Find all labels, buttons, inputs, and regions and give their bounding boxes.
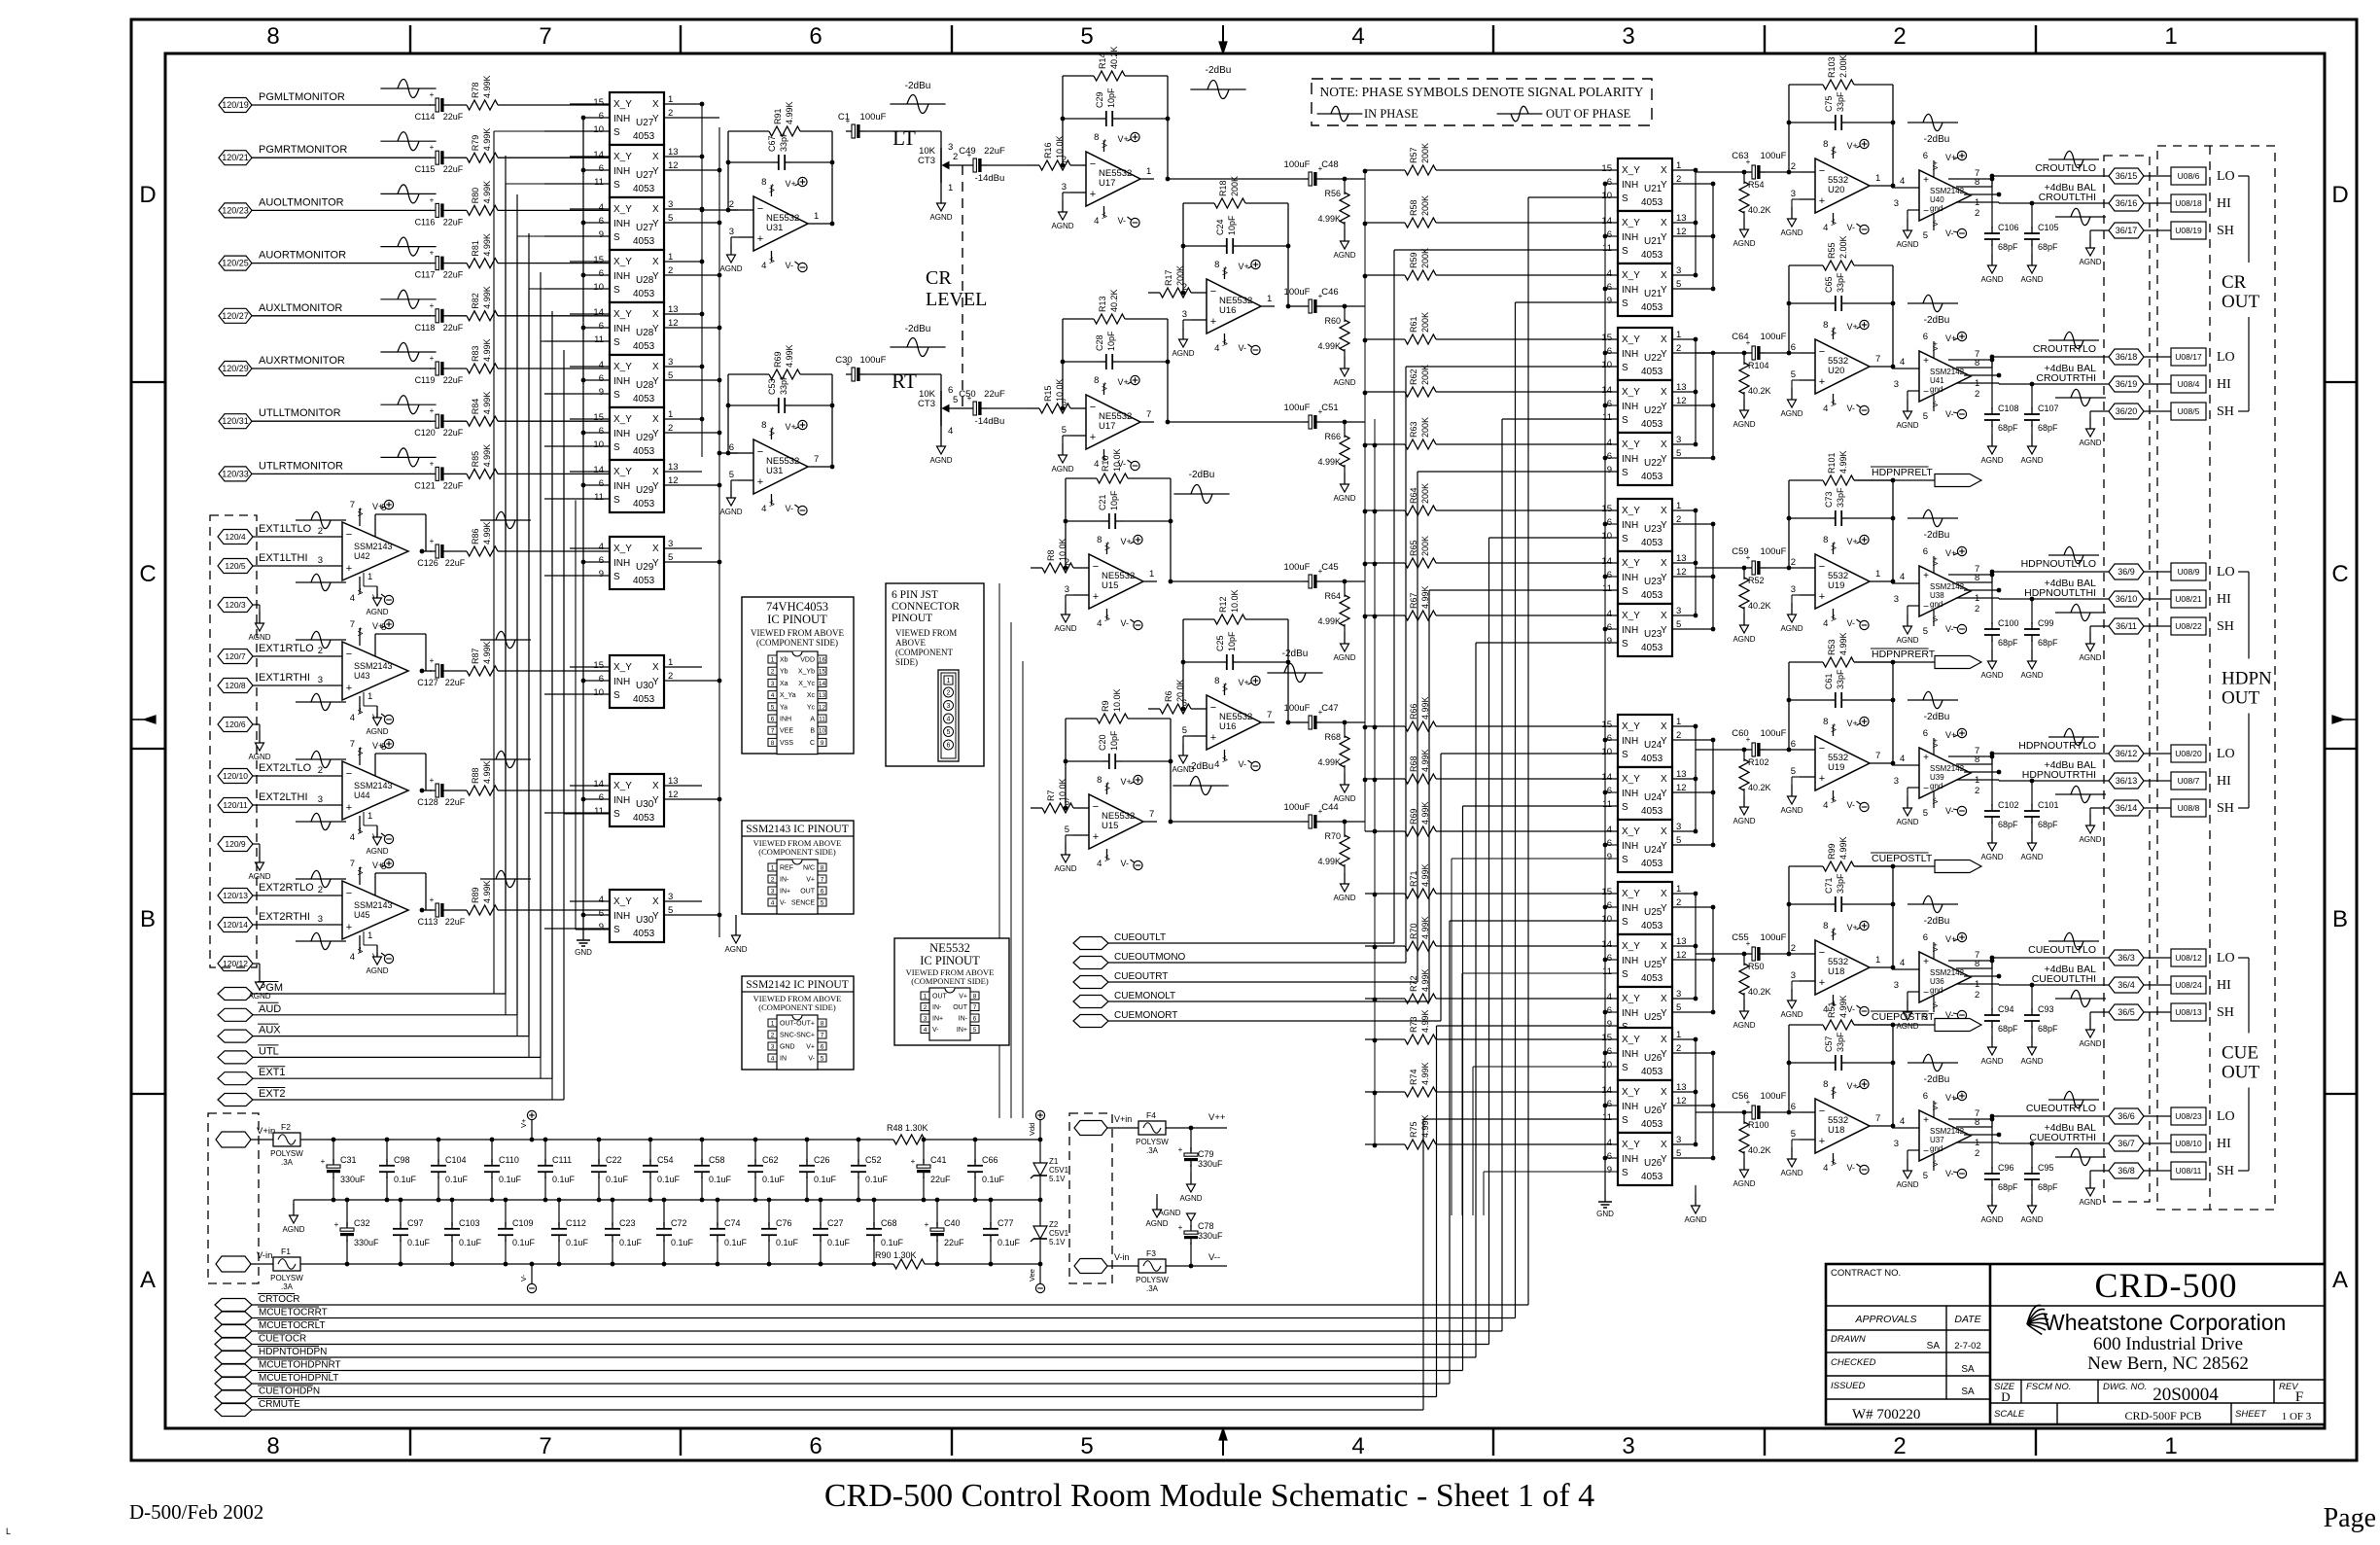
svg-text:6: 6 [809,1433,822,1459]
resistor R69 feedback [726,344,832,455]
mux U23 section 3 [1607,604,1713,656]
capacitor C46 100uF [1284,287,1365,313]
svg-text:Yc: Yc [807,704,816,711]
svg-text:7: 7 [350,739,355,750]
terminal U08/7 [2171,772,2206,790]
svg-text:68pF: 68pF [1998,1024,2018,1034]
svg-text:C24: C24 [1215,219,1225,235]
svg-text:V-: V- [1829,218,1837,226]
svg-text:V-: V- [1945,1169,1954,1178]
svg-text:Y: Y [652,677,659,687]
svg-text:Y: Y [652,219,659,229]
svg-text:4053: 4053 [1641,1172,1663,1182]
svg-text:0.1uF: 0.1uF [394,1175,417,1184]
svg-text:AGND: AGND [1684,1215,1706,1224]
svg-text:+: + [430,537,435,545]
dashed connector column B [2157,146,2275,1210]
capacitor C74 [710,1198,748,1267]
svg-text:6: 6 [1791,1102,1796,1112]
net CUEOUTRT [1073,472,1618,989]
svg-text:U43: U43 [354,671,370,681]
op-amp U31 RT [729,420,822,515]
svg-text:D: D [2331,182,2348,208]
ground U16 [1172,320,1194,358]
mux output join wires [1694,168,1746,1161]
svg-text:D: D [139,182,156,208]
op-amp U42 SSM2143 [318,500,426,605]
svg-text:R101: R101 [1827,452,1837,474]
capacitor C64 100uF [1732,332,1800,360]
svg-text:−: − [1819,346,1825,358]
svg-text:4053: 4053 [1641,973,1663,984]
svg-text:14: 14 [593,465,604,475]
svg-text:15: 15 [819,669,826,676]
svg-text:X: X [1661,721,1667,732]
ground [575,915,592,957]
svg-text:C101: C101 [2038,800,2059,810]
svg-text:gnd: gnd [1930,204,1942,213]
svg-text:C5V1: C5V1 [1049,1166,1069,1175]
ground U31 RT [719,480,742,516]
svg-text:5.1V: 5.1V [1049,1175,1066,1183]
INH bus left [581,116,586,918]
svg-text:40.2K: 40.2K [1748,987,1771,997]
svg-text:X_Y: X_Y [1622,1087,1640,1098]
svg-text:AGND: AGND [1896,636,1918,645]
svg-text:2: 2 [1893,23,1906,50]
svg-text:AGND: AGND [2020,275,2043,284]
svg-text:SENCE: SENCE [791,900,815,907]
svg-text:V-: V- [1846,223,1855,232]
svg-text:1: 1 [367,931,372,941]
svg-text:CROUTLTLO: CROUTLTLO [2035,162,2096,174]
ground ref U44 [364,812,389,856]
op-amp U31 LT [729,177,822,272]
svg-text:POLYSW: POLYSW [1136,1276,1169,1284]
connector 36/7 [2109,1136,2171,1151]
svg-text:U45: U45 [354,910,370,920]
svg-text:33pF: 33pF [1836,873,1845,894]
svg-text:33pF: 33pF [779,374,788,395]
svg-text:V-: V- [767,499,776,507]
svg-text:SSM2142: SSM2142 [1930,764,1965,773]
svg-text:R82: R82 [471,293,480,309]
svg-text:EXT2LTLO: EXT2LTLO [259,762,312,774]
svg-text:S: S [1622,298,1628,309]
svg-text:AGND: AGND [1051,465,1073,474]
svg-text:EXT1LTHI: EXT1LTHI [259,552,308,564]
mux U24 section 2 [1601,767,1713,820]
svg-text:LO: LO [2217,747,2235,761]
svg-text:AGND: AGND [1980,456,2003,465]
AGND mux right [724,915,747,954]
svg-text:7: 7 [539,1433,551,1459]
svg-text:-2dBu: -2dBu [1924,712,1950,722]
svg-text:C22: C22 [606,1155,622,1165]
svg-text:3: 3 [318,794,323,805]
svg-text:A: A [2332,1267,2348,1293]
ground U20 [1780,199,1802,237]
svg-text:AGND: AGND [1732,1021,1755,1030]
svg-text:V-: V- [519,1274,528,1282]
svg-text:4: 4 [924,1027,927,1034]
capacitor C119 [415,354,464,385]
svg-text:SSM2142: SSM2142 [1930,187,1965,195]
net CUETOHDPN [215,1026,1618,1403]
svg-text:100uF: 100uF [1761,546,1787,557]
svg-text:Y: Y [1661,573,1667,583]
svg-text:100uF: 100uF [1761,151,1787,161]
svg-text:V+: V+ [785,422,795,432]
svg-text:Xb: Xb [780,657,788,664]
svg-text:+: + [346,683,352,694]
svg-text:R14: R14 [1098,53,1107,69]
resistor R52 40.2K [1732,566,1770,644]
svg-text:C47: C47 [1321,703,1338,714]
svg-text:C66: C66 [982,1155,998,1165]
svg-text:4: 4 [1094,459,1099,470]
svg-text:Y: Y [1661,1008,1667,1019]
svg-text:Ya: Ya [780,704,787,711]
svg-text:V+in: V+in [1114,1114,1132,1124]
svg-text:SIDE): SIDE) [895,657,918,667]
svg-text:CUEOUTLTLO: CUEOUTLTLO [2028,944,2096,956]
shield wire [2079,626,2110,662]
svg-text:36/16: 36/16 [2116,198,2138,208]
mux U25 section 1 [1601,882,1713,934]
svg-text:SSM2142: SSM2142 [1930,368,1965,376]
svg-text:V+: V+ [1945,153,1956,162]
mux U28 section 3 [544,355,719,407]
svg-text:16: 16 [819,657,826,664]
node EXT2LTLO [218,762,327,784]
svg-text:0.1uF: 0.1uF [459,1238,482,1247]
svg-text:11: 11 [1602,412,1612,423]
svg-text:IN: IN [780,1056,787,1063]
svg-text:4.99K: 4.99K [482,75,492,98]
svg-text:IN+: IN+ [957,1027,967,1034]
svg-text:X_Y: X_Y [1622,1035,1640,1045]
svg-text:V+: V+ [1945,934,1956,944]
svg-text:100uF: 100uF [1761,728,1787,739]
svg-text:6: 6 [1607,786,1612,796]
resistor R90 1.30K [875,1250,925,1269]
svg-text:R18: R18 [1218,180,1228,196]
svg-text:−: − [1923,784,1929,794]
terminal U08/21 [2171,590,2206,608]
phase out symbols [2048,151,2106,225]
svg-text:Y: Y [1661,520,1667,531]
capacitor C1 100uF [822,112,941,226]
svg-text:C98: C98 [394,1155,410,1165]
svg-text:AGND: AGND [1980,275,2003,284]
svg-text:0.1uF: 0.1uF [865,1175,889,1184]
svg-text:AGND: AGND [2020,671,2043,680]
svg-text:0.1uF: 0.1uF [512,1238,536,1247]
svg-text:3: 3 [771,681,775,687]
svg-text:X: X [652,896,659,907]
fuse F4 [1136,1110,1227,1155]
svg-text:V+: V+ [356,507,365,516]
svg-text:U08/22: U08/22 [2175,621,2202,631]
svg-text:100uF: 100uF [1284,562,1311,573]
svg-text:RT: RT [892,369,917,393]
terminal U08/17 [2171,348,2206,366]
resistor R64 shunt [1317,581,1355,662]
svg-text:68pF: 68pF [2038,638,2058,648]
svg-text:X: X [652,204,659,215]
svg-text:11: 11 [819,717,825,723]
mux U27 section 1 [544,92,719,145]
phase symbol PGMRTMONITOR [380,132,436,151]
capacitor C27 [813,1198,851,1267]
svg-text:2.00K: 2.00K [1838,54,1848,78]
svg-text:+: + [1178,1223,1183,1232]
svg-text:X_Y: X_Y [613,544,632,554]
svg-text:200K: 200K [1175,265,1185,286]
svg-text:0.1uF: 0.1uF [997,1238,1021,1247]
capacitor C75 33pF [1787,91,1896,130]
svg-text:AUXRTMONITOR: AUXRTMONITOR [259,355,345,367]
svg-text:10pF: 10pF [1109,730,1119,751]
svg-text:120/7: 120/7 [225,651,246,661]
terminal U08/5 [2171,403,2206,420]
capacitor C44 100uF [1171,802,1365,828]
svg-text:C59: C59 [1732,546,1748,557]
capacitor C40 [925,1198,964,1267]
resistor R99 feedback [1787,836,1896,969]
node EXT2LTHI [218,791,327,813]
svg-text:R83: R83 [471,345,480,362]
svg-text:4: 4 [761,504,766,514]
svg-text:R81: R81 [471,240,480,257]
mux U25 section 2 [1601,934,1713,987]
svg-text:X_Y: X_Y [1622,826,1640,837]
V- takeoff [519,1262,537,1293]
svg-text:4.99K: 4.99K [482,641,492,664]
svg-text:.3A: .3A [1146,1146,1159,1155]
driver output wires [1948,564,2110,614]
svg-text:14: 14 [593,150,604,160]
capacitor C103 [444,1198,482,1267]
phase -2dBu RT [890,324,945,356]
svg-text:120/14: 120/14 [223,920,248,930]
svg-text:4: 4 [948,426,953,437]
svg-text:120/3: 120/3 [225,600,246,610]
svg-text:INH: INH [613,795,630,806]
svg-text:4: 4 [1823,223,1828,233]
svg-text:C5V1: C5V1 [1049,1229,1069,1238]
svg-text:HDPN: HDPN [2222,669,2272,689]
svg-text:AGND: AGND [929,213,952,222]
svg-text:8: 8 [1823,717,1828,727]
svg-text:S: S [613,925,620,935]
mux U29 section 3 [544,537,719,589]
svg-text:V+: V+ [1931,341,1940,351]
svg-text:U42: U42 [354,551,370,561]
svg-text:4: 4 [599,360,604,370]
svg-text:HI: HI [2217,978,2231,993]
svg-text:X_Y: X_Y [1622,334,1640,345]
node AUXRTMONITOR [219,355,431,376]
svg-text:Y: Y [652,271,659,282]
svg-text:14: 14 [1601,939,1612,950]
svg-text:2: 2 [1893,1433,1906,1459]
capacitor C58 [694,1138,732,1203]
svg-text:6: 6 [599,674,604,685]
svg-text:200K: 200K [1420,143,1430,163]
node UTLRTMONITOR [219,460,431,481]
resistor R79 [449,128,498,163]
net tag CUEPOSTRT [1854,1011,1981,1032]
svg-text:R69: R69 [773,351,783,368]
svg-text:C126: C126 [417,558,438,568]
capacitor C32 [334,1198,379,1267]
connector 36/4 [2109,977,2171,993]
svg-text:6: 6 [599,321,604,332]
svg-text:−: − [346,649,352,660]
svg-text:AGND: AGND [2079,439,2101,447]
svg-text:4053: 4053 [1641,806,1663,817]
svg-text:INH: INH [1622,1154,1638,1165]
svg-text:6: 6 [1607,177,1612,188]
svg-text:V+: V+ [1117,377,1128,387]
svg-text:+: + [430,195,435,204]
capacitor C63 100uF [1732,151,1800,179]
svg-text:POLYSW: POLYSW [1136,1138,1169,1146]
svg-text:U21: U21 [1644,236,1662,247]
svg-text:R91: R91 [773,108,783,124]
svg-text:4053: 4053 [1641,197,1663,208]
Vdd takeoff [1028,1110,1045,1141]
svg-text:U17: U17 [1099,178,1115,189]
svg-text:5.1V: 5.1V [1049,1238,1066,1247]
svg-text:(COMPONENT SIDE): (COMPONENT SIDE) [756,638,838,648]
svg-text:+: + [430,354,435,363]
svg-text:SA: SA [1961,1387,1975,1397]
svg-text:V+: V+ [1846,923,1857,932]
svg-text:R100: R100 [1748,1120,1769,1130]
svg-text:X_Y: X_Y [613,662,632,673]
svg-text:36/12: 36/12 [2116,749,2138,758]
svg-text:14: 14 [819,681,826,687]
svg-text:OUT+: OUT+ [796,1021,815,1028]
svg-text:68pF: 68pF [2038,820,2058,829]
svg-text:INH: INH [613,481,630,492]
resistor R61 bus [1365,312,1618,344]
svg-text:7: 7 [539,23,551,50]
svg-text:SA: SA [1961,1364,1975,1375]
svg-text:15: 15 [1601,1033,1612,1043]
svg-text:AUX: AUX [259,1025,281,1036]
right wiring bus ladder [1363,169,1618,1215]
svg-text:X_Y: X_Y [613,896,632,907]
resistor R69 bus [1365,801,1618,836]
svg-text:15: 15 [1601,720,1612,730]
svg-text:3: 3 [1894,1139,1899,1149]
NE5532 pinout box [894,938,1009,1045]
svg-text:C40: C40 [944,1218,961,1228]
svg-text:S: S [613,690,620,701]
svg-text:INH: INH [613,376,630,387]
svg-text:X_Y: X_Y [613,414,632,425]
op-amp U15 stage [1065,775,1157,870]
resistor R16 input [1028,135,1070,170]
svg-text:120/19: 120/19 [222,100,249,110]
terminal U08/4 [2171,375,2206,393]
svg-text:X_Y: X_Y [613,467,632,477]
svg-text:INH: INH [613,219,630,229]
resistor R84 [449,392,498,427]
svg-text:C103: C103 [459,1218,480,1228]
svg-text:100uF: 100uF [1284,802,1311,813]
svg-text:D: D [2001,1389,2010,1404]
svg-text:R60: R60 [1324,316,1341,326]
svg-text:R61: R61 [1409,316,1418,333]
svg-text:U16: U16 [1219,305,1236,316]
phase out symbols [2048,1091,2106,1165]
svg-text:APPROVALS: APPROVALS [1854,1314,1916,1325]
svg-text:-14dBu: -14dBu [975,416,1005,427]
group HDPN OUT [2222,572,2272,808]
svg-text:SH: SH [2217,1164,2234,1178]
svg-text:R75: R75 [1409,1121,1418,1138]
svg-text:SA: SA [1927,1341,1941,1352]
svg-text:AGND: AGND [2079,1039,2101,1048]
svg-text:0.1uF: 0.1uF [657,1175,681,1184]
svg-text:4053: 4053 [1641,472,1663,482]
svg-text:R57: R57 [1409,147,1418,163]
svg-text:FSCM NO.: FSCM NO. [2026,1382,2071,1392]
svg-text:U27: U27 [636,170,654,181]
svg-text:U39: U39 [1930,773,1944,782]
group CR OUT [2222,176,2259,411]
svg-text:V-: V- [356,826,365,834]
svg-text:AGND: AGND [1980,671,2003,680]
svg-text:AGND: AGND [282,1225,304,1234]
svg-text:SSM2143: SSM2143 [354,661,393,671]
svg-text:120/6: 120/6 [225,720,246,729]
svg-text:C57: C57 [1824,1036,1834,1052]
svg-text:U36: U36 [1930,977,1944,986]
svg-text:S: S [1622,586,1628,597]
capacitor C117 [415,249,464,280]
svg-text:−: − [1923,602,1929,613]
phase -2dBu feedback [1907,509,1958,541]
svg-text:V-: V- [808,1056,815,1063]
svg-text:R64: R64 [1324,591,1341,601]
svg-text:V-: V- [1931,219,1940,227]
svg-text:2: 2 [771,1033,775,1039]
svg-text:Y: Y [652,795,659,806]
svg-text:3: 3 [1622,1433,1634,1459]
wires to U31 inputs [700,208,738,456]
svg-text:7: 7 [1149,809,1154,820]
svg-text:−: − [1819,743,1825,755]
svg-text:1: 1 [2164,23,2177,50]
mux U22 section 1 [1601,328,1713,380]
net labels out [2035,162,2096,203]
svg-text:B: B [140,906,156,932]
svg-text:C60: C60 [1732,728,1748,739]
svg-text:22uF: 22uF [984,146,1005,157]
svg-text:4: 4 [1823,618,1828,629]
svg-text:Y: Y [652,376,659,387]
svg-text:11: 11 [1602,966,1612,977]
svg-text:U08/11: U08/11 [2176,1166,2202,1176]
svg-text:6: 6 [1607,1046,1612,1057]
resistor R13 feedback [1061,289,1171,424]
